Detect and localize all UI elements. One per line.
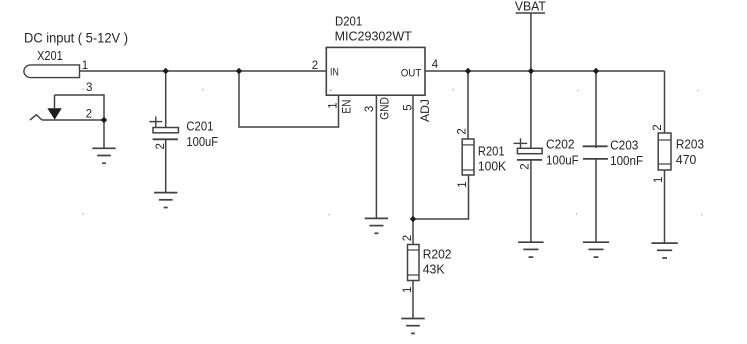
svg-text:OUT: OUT (401, 67, 422, 79)
svg-text:VBAT: VBAT (515, 0, 546, 14)
svg-text:1: 1 (328, 102, 340, 108)
svg-text:100K: 100K (478, 159, 507, 174)
svg-text:1: 1 (457, 181, 469, 187)
svg-text:C203: C203 (610, 137, 638, 152)
svg-text:2: 2 (519, 163, 531, 169)
svg-text:100uF: 100uF (546, 153, 579, 168)
svg-text:2: 2 (86, 108, 92, 120)
svg-text:2: 2 (652, 124, 664, 130)
svg-text:C202: C202 (546, 137, 575, 152)
svg-text:3: 3 (86, 82, 92, 94)
svg-text:DC input ( 5-12V ): DC input ( 5-12V ) (24, 31, 128, 46)
svg-text:D201: D201 (335, 13, 362, 28)
svg-text:1: 1 (82, 60, 88, 72)
svg-text:R201: R201 (478, 143, 505, 158)
svg-text:1: 1 (402, 287, 414, 293)
svg-text:R203: R203 (676, 136, 704, 151)
svg-text:IN: IN (330, 67, 339, 79)
svg-text:100nF: 100nF (610, 153, 643, 168)
svg-text:2: 2 (312, 60, 318, 72)
svg-text:2: 2 (155, 143, 167, 149)
svg-text:ADJ: ADJ (418, 99, 432, 122)
svg-text:5: 5 (403, 104, 415, 110)
svg-text:MIC29302WT: MIC29302WT (335, 28, 412, 43)
svg-text:C201: C201 (186, 118, 213, 133)
svg-text:3: 3 (364, 106, 376, 112)
svg-text:X201: X201 (37, 48, 63, 63)
svg-text:1: 1 (653, 177, 665, 183)
svg-text:R202: R202 (423, 246, 452, 261)
svg-text:4: 4 (432, 59, 439, 71)
svg-text:2: 2 (402, 235, 414, 241)
svg-text:GND: GND (377, 97, 391, 120)
svg-text:EN: EN (339, 100, 353, 114)
svg-text:100uF: 100uF (186, 134, 218, 149)
svg-text:43K: 43K (423, 262, 445, 277)
svg-text:470: 470 (676, 152, 696, 167)
svg-text:2: 2 (456, 128, 468, 134)
